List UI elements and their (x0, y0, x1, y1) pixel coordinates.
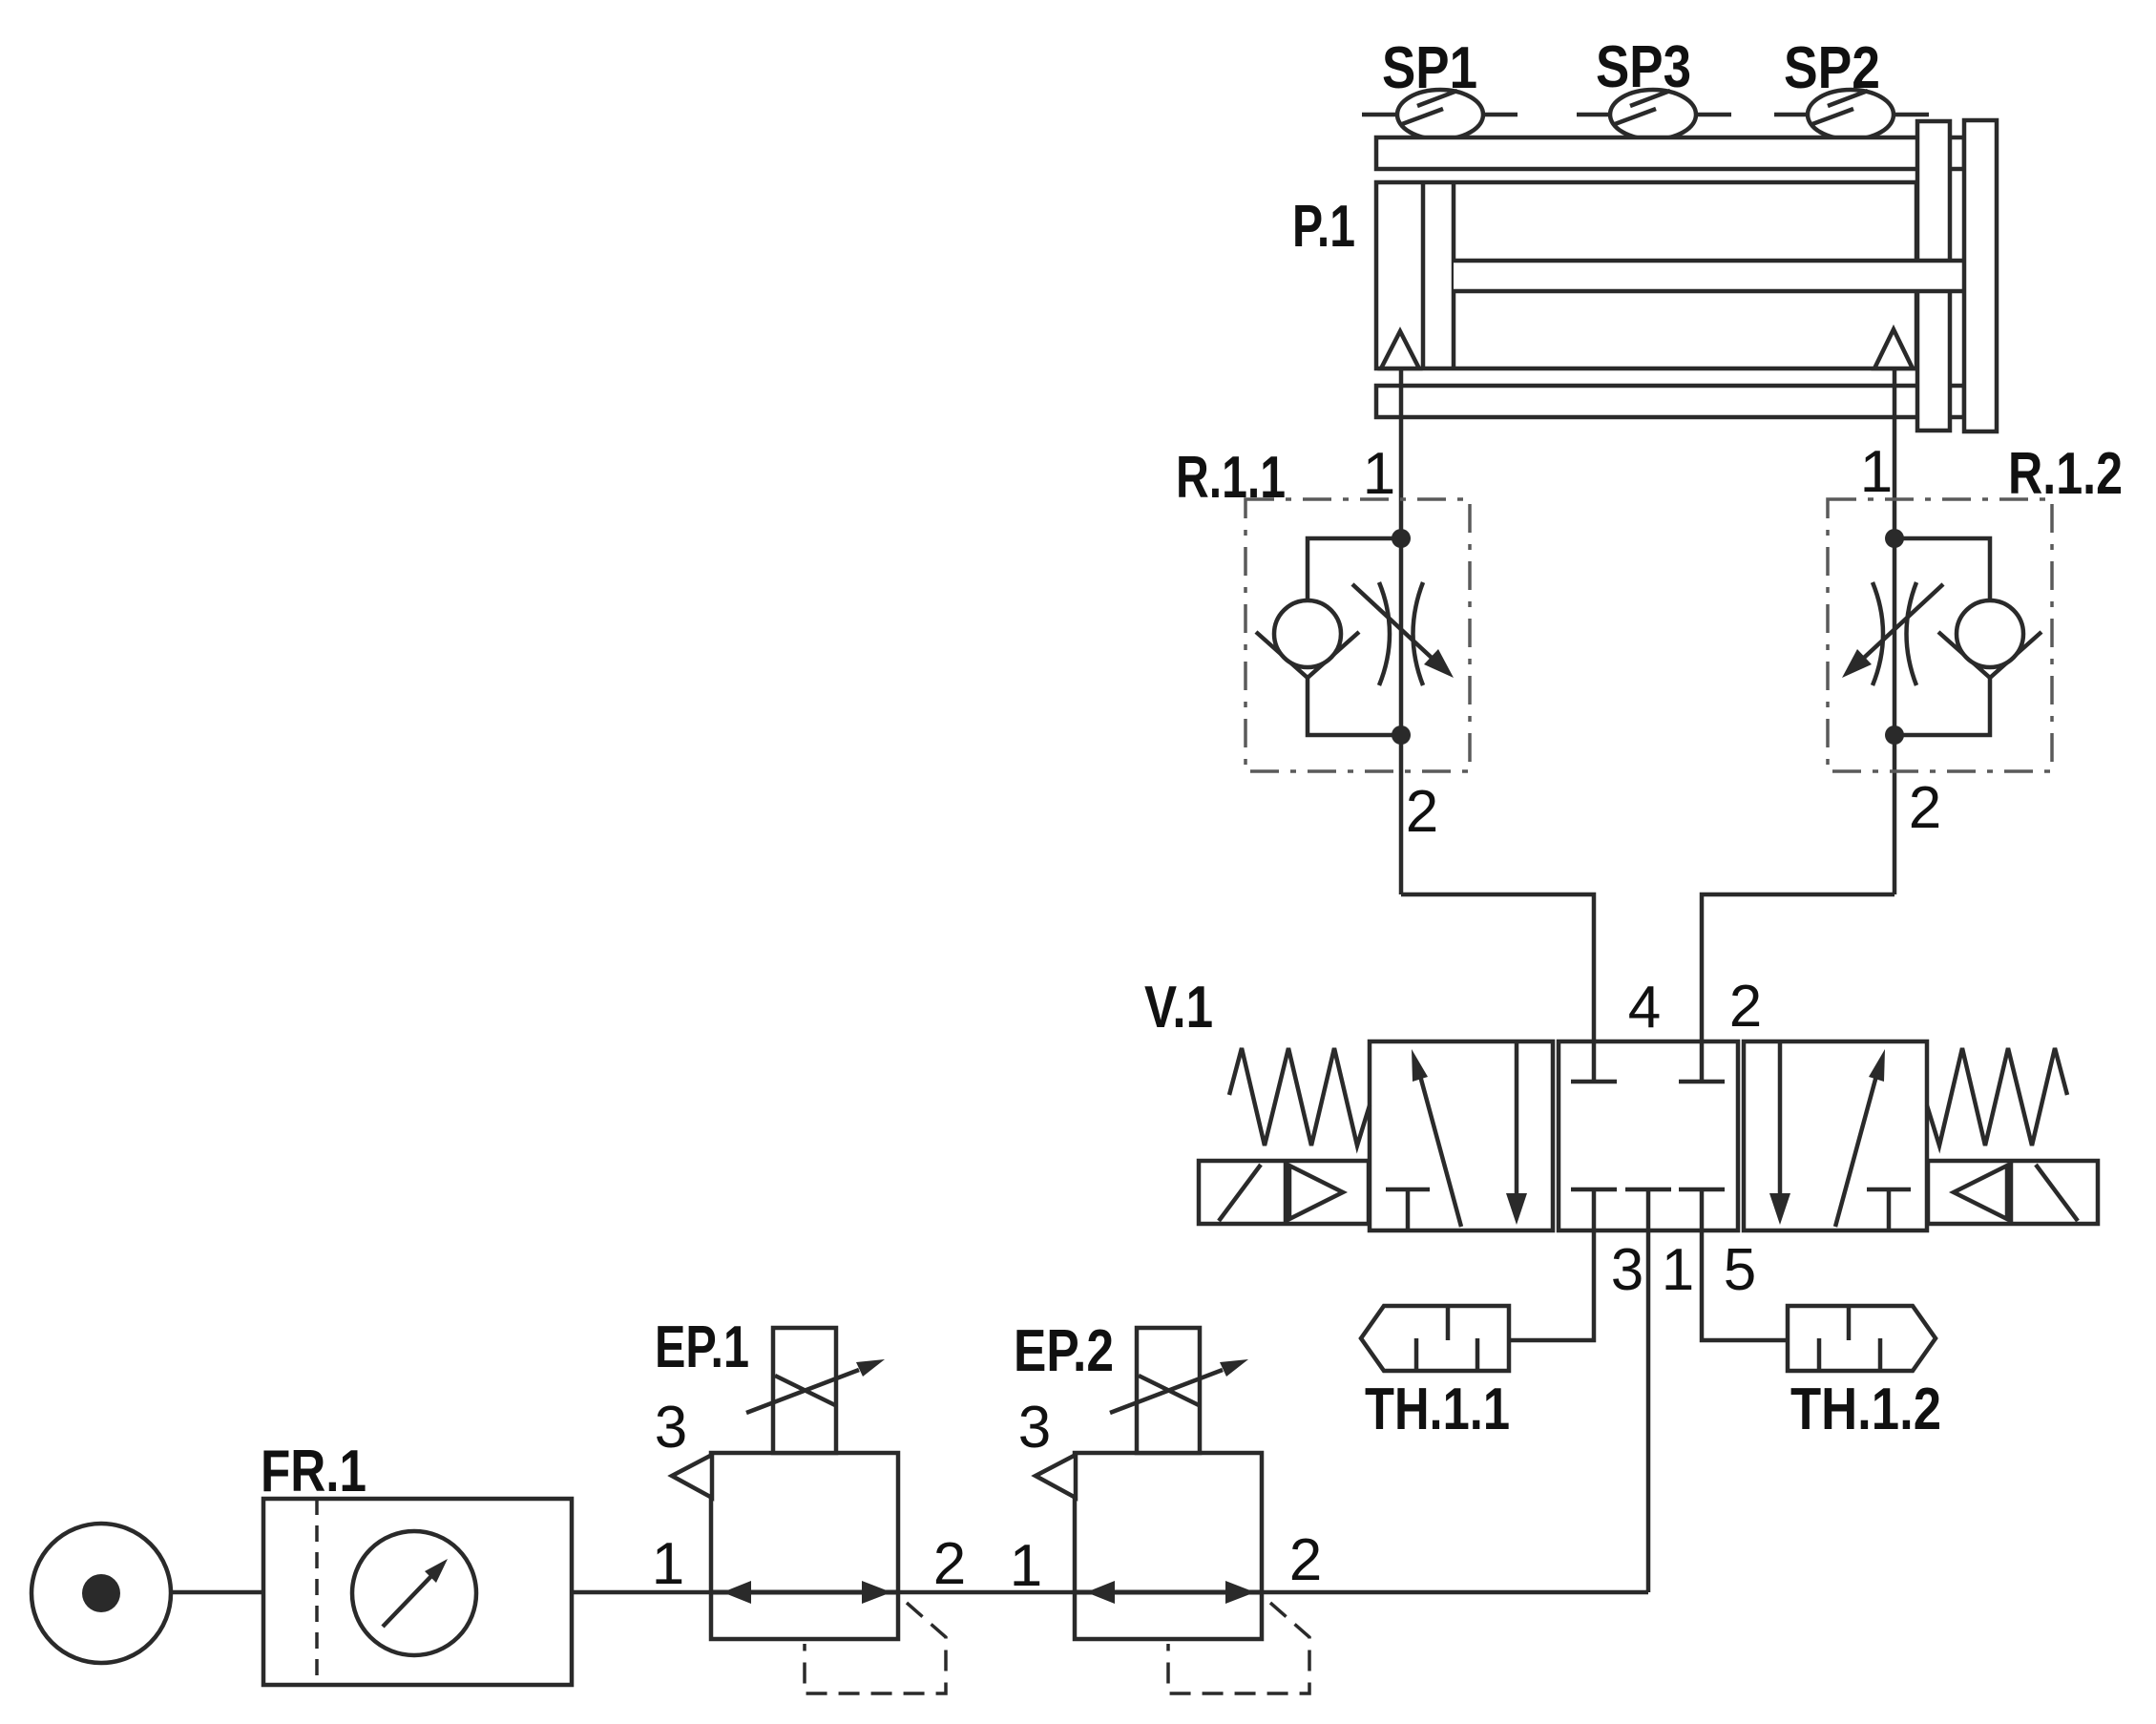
svg-text:2: 2 (1406, 779, 1438, 845)
svg-text:1: 1 (1363, 441, 1395, 507)
svg-text:SP2: SP2 (1784, 35, 1880, 101)
svg-text:P.1: P.1 (1292, 194, 1355, 260)
svg-text:R.1.2: R.1.2 (2008, 441, 2123, 507)
svg-text:2: 2 (1729, 974, 1762, 1040)
svg-text:SP1: SP1 (1382, 35, 1477, 101)
svg-text:1: 1 (1662, 1237, 1694, 1303)
svg-text:2: 2 (933, 1531, 966, 1597)
svg-text:5: 5 (1724, 1237, 1756, 1303)
svg-text:3: 3 (655, 1395, 687, 1461)
svg-text:2: 2 (1909, 775, 1941, 841)
svg-text:R.1.1: R.1.1 (1176, 445, 1286, 511)
svg-text:3: 3 (1018, 1395, 1051, 1461)
svg-text:2: 2 (1289, 1527, 1322, 1593)
svg-text:SP3: SP3 (1596, 34, 1691, 100)
svg-text:TH.1.1: TH.1.1 (1365, 1377, 1510, 1442)
svg-text:V.1: V.1 (1144, 975, 1213, 1041)
svg-text:TH.1.2: TH.1.2 (1790, 1377, 1941, 1442)
svg-text:3: 3 (1611, 1237, 1643, 1303)
svg-text:EP.1: EP.1 (655, 1314, 749, 1380)
svg-text:EP.2: EP.2 (1014, 1318, 1114, 1384)
svg-text:4: 4 (1628, 975, 1661, 1041)
svg-text:1: 1 (1010, 1533, 1042, 1599)
svg-text:1: 1 (1860, 439, 1893, 505)
svg-text:1: 1 (652, 1531, 684, 1597)
svg-text:FR.1: FR.1 (261, 1439, 366, 1504)
